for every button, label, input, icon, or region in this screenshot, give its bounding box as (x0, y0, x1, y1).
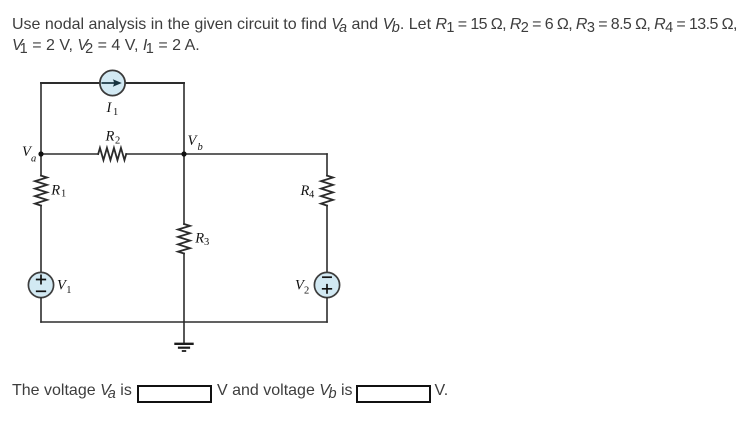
svg-text:a: a (31, 154, 36, 165)
resistor R4 (321, 176, 333, 206)
node Vb junction (181, 151, 186, 156)
answer sentence (12, 380, 132, 402)
svg-text:3: 3 (204, 237, 209, 248)
current source I1 (100, 70, 125, 95)
svg-text:1: 1 (61, 188, 66, 199)
svg-text:R: R (105, 129, 115, 145)
svg-text:1: 1 (113, 107, 118, 118)
node Va (38, 151, 43, 156)
label I1 (106, 100, 119, 118)
svg-text:R: R (194, 231, 204, 247)
wire: right vertical from node row down to R4 (326, 154, 328, 176)
svg-text:4: 4 (309, 190, 315, 201)
wire: middle vertical from top wire down to R3 (183, 83, 185, 224)
voltage source V1 (28, 272, 53, 297)
label R4 (300, 183, 316, 201)
wire: left vertical branch, top-left corner down to node Va and to R1 (40, 83, 42, 176)
label R3 (194, 231, 209, 248)
wire: right vertical below V2 to bottom-right corner (326, 298, 328, 322)
label Vb (188, 133, 203, 153)
wire: top horizontal from left corner to middle branch (41, 82, 184, 84)
label V2 (295, 278, 309, 297)
resistor R1 (35, 176, 47, 206)
svg-text:b: b (198, 142, 203, 153)
label V1 (57, 278, 72, 297)
input box for Vb (356, 385, 431, 403)
ground (176, 322, 193, 351)
svg-text:2: 2 (115, 136, 120, 147)
svg-text:2: 2 (304, 285, 309, 296)
voltage source V2 (314, 272, 339, 297)
resistor R3 (178, 224, 190, 254)
label Va (22, 144, 36, 164)
label R1 (50, 183, 66, 200)
wire: middle vertical below R3 to bottom wire (183, 254, 185, 323)
svg-text:R: R (300, 183, 310, 199)
problem text line 2 (12, 35, 200, 57)
label R2 (105, 129, 121, 147)
resistor R2 (98, 148, 126, 160)
wire: horizontal R2 through node Vb to right branch (126, 153, 327, 155)
svg-text:1: 1 (66, 285, 71, 296)
svg-text:I: I (106, 100, 113, 116)
wire: left vertical between R1 and V1 (40, 206, 42, 272)
wire: right vertical between R4 and V2 (326, 206, 328, 272)
input box for Va (137, 385, 212, 403)
wire: horizontal Va to R2 (41, 153, 98, 155)
svg-text:R: R (50, 183, 60, 199)
wire: bottom horizontal (41, 321, 327, 323)
problem text line 1 (12, 14, 737, 36)
wire: left vertical below V1 to bottom-left corner (40, 298, 42, 322)
